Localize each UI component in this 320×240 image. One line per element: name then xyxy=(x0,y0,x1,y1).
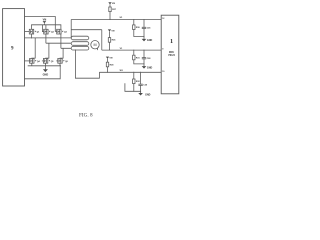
node W loop tap xyxy=(75,49,76,50)
wire source bus xyxy=(28,63,61,66)
transistor Q5 xyxy=(42,59,54,64)
node U riser tap xyxy=(71,37,72,38)
node gnd A xyxy=(143,36,144,37)
motor M xyxy=(91,41,99,49)
wire gate feed Q3 from block xyxy=(25,17,57,32)
wire sense V riser xyxy=(101,30,103,50)
wire sense U riser xyxy=(70,20,72,38)
node gnd B xyxy=(143,63,144,64)
svg-text:R32: R32 xyxy=(136,81,141,83)
svg-text:9: 9 xyxy=(11,47,14,52)
node R31 tap xyxy=(133,50,134,51)
node C29 tap xyxy=(140,72,141,73)
ground net A xyxy=(142,37,153,43)
transistor Q6 xyxy=(56,59,68,64)
wire motor tap xyxy=(97,48,99,50)
transistor Q2 xyxy=(42,25,54,34)
wire phase W line xyxy=(61,34,71,48)
ground net C xyxy=(138,91,150,96)
svg-text:C28: C28 xyxy=(147,58,152,60)
svg-text:C25: C25 xyxy=(147,28,152,30)
wire phase V line xyxy=(46,34,71,43)
supply chain B: flag VM xyxy=(108,29,115,37)
resistor R30 xyxy=(133,20,144,37)
svg-text:R31: R31 xyxy=(136,57,141,59)
node R30 tap xyxy=(133,19,134,20)
svg-text:GND: GND xyxy=(147,66,153,69)
svg-text:Q2: Q2 xyxy=(51,32,55,34)
controller block 9 xyxy=(3,9,25,86)
svg-text:Q3: Q3 xyxy=(64,32,68,34)
capacitor C28 xyxy=(142,50,152,64)
svg-text:Q4: Q4 xyxy=(37,60,41,63)
node R32 tap xyxy=(133,72,134,73)
svg-text:R28: R28 xyxy=(110,64,115,66)
node phase U xyxy=(31,37,32,38)
svg-text:Q6: Q6 xyxy=(65,61,69,63)
node C25 tap xyxy=(144,19,145,20)
MCU block 1 xyxy=(161,15,179,94)
svg-text:GND: GND xyxy=(147,39,153,42)
svg-text:VM: VM xyxy=(111,30,114,32)
winding pill U xyxy=(71,36,89,40)
svg-text:R30: R30 xyxy=(136,27,141,29)
wire drain bus xyxy=(32,25,61,29)
capacitor C25 xyxy=(142,20,152,37)
svg-text:M: M xyxy=(93,43,96,47)
svg-text:9: 9 xyxy=(162,49,164,51)
resistor R28 xyxy=(106,62,114,72)
node chain B xyxy=(109,50,110,51)
svg-text:Q5: Q5 xyxy=(51,61,55,63)
node C28 tap xyxy=(144,50,145,51)
node chain C xyxy=(107,72,108,73)
svg-text:C29: C29 xyxy=(143,84,148,86)
wire phase U line xyxy=(25,34,72,38)
wire over line D xyxy=(71,29,102,31)
wire sense U line xyxy=(71,19,161,21)
wire sense V line xyxy=(102,49,161,51)
svg-text:W1: W1 xyxy=(120,70,124,72)
ground bridge xyxy=(43,66,49,77)
svg-text:10: 10 xyxy=(162,71,165,73)
resistor R32 xyxy=(133,72,141,91)
svg-text:VM: VM xyxy=(109,58,112,60)
capacitor C29 xyxy=(138,72,148,91)
ground net B xyxy=(142,64,153,70)
svg-text:MCU: MCU xyxy=(169,52,175,54)
winding pill V xyxy=(71,42,89,46)
resistor R27 xyxy=(109,7,117,20)
transistor Q3 xyxy=(57,29,68,34)
supply chain A: flag VM xyxy=(108,2,115,7)
wire gnd C hook xyxy=(125,83,134,91)
wire sense W line xyxy=(99,71,161,73)
svg-text:V1: V1 xyxy=(120,48,123,50)
transistor Q1 xyxy=(25,29,41,34)
resistor R26 xyxy=(108,38,116,51)
node chain A xyxy=(109,19,110,20)
svg-text:GND: GND xyxy=(145,93,151,96)
winding pill W xyxy=(71,46,89,50)
resistor R31 xyxy=(133,50,144,64)
supply chain C: flag VM xyxy=(106,57,113,63)
svg-text:Q1: Q1 xyxy=(37,32,41,34)
transistor Q4 xyxy=(25,59,41,64)
wire drain riser Q6 xyxy=(60,48,63,58)
supply flag VM bus xyxy=(43,19,47,25)
wire block sense return xyxy=(25,66,61,79)
svg-text:GND: GND xyxy=(43,73,49,76)
wire W loop xyxy=(75,50,99,78)
wire drain riser Q4 xyxy=(32,38,35,59)
svg-text:R27: R27 xyxy=(112,9,117,11)
svg-text:U1: U1 xyxy=(120,17,124,19)
svg-text:PIC24: PIC24 xyxy=(168,54,175,57)
node gnd C xyxy=(140,91,141,92)
svg-text:R26: R26 xyxy=(112,40,117,42)
wire drain riser Q5 xyxy=(46,43,49,58)
svg-text:VM: VM xyxy=(112,3,115,5)
svg-text:1: 1 xyxy=(170,38,173,45)
svg-text:12: 12 xyxy=(162,18,165,20)
svg-text:FIG. 8: FIG. 8 xyxy=(79,112,93,118)
